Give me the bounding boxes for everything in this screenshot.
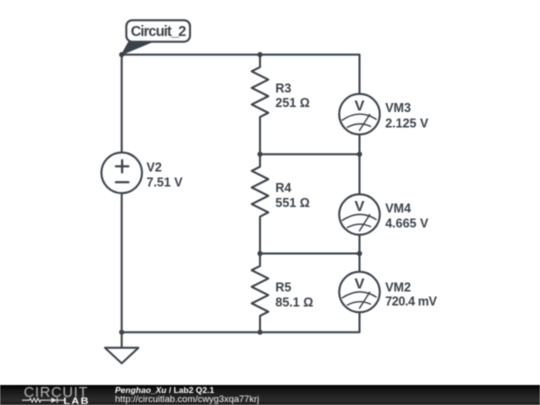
svg-text:R3: R3 bbox=[275, 81, 291, 95]
svg-text:251 Ω: 251 Ω bbox=[275, 96, 309, 110]
svg-text:VM3: VM3 bbox=[385, 101, 411, 115]
wire left rail (node A down through V2 to ground node) bbox=[121, 55, 123, 153]
svg-text:R4: R4 bbox=[275, 181, 291, 195]
annotation callout Circuit_2 box bbox=[126, 20, 190, 42]
voltmeter VM3 bbox=[339, 94, 380, 135]
wire VM4 top lead bbox=[359, 154, 361, 194]
wire row 3 (R4/R5 junction to VM4/VM2 junction) bbox=[260, 253, 360, 255]
svg-text:2.125 V: 2.125 V bbox=[385, 116, 429, 130]
footer author / title line bbox=[115, 386, 214, 395]
svg-text:551 Ω: 551 Ω bbox=[275, 196, 309, 210]
node dot R4/R5 junction bbox=[257, 251, 262, 256]
voltage source V2 bbox=[101, 153, 142, 194]
svg-text:VM4: VM4 bbox=[385, 201, 411, 215]
svg-text:720.4 mV: 720.4 mV bbox=[385, 295, 437, 309]
wire VM3 branch top bbox=[359, 55, 361, 94]
wire VM4 bottom lead bbox=[359, 235, 361, 254]
node A dot (top-left corner) bbox=[119, 52, 124, 57]
CircuitLab logo bbox=[0, 385, 110, 405]
annotation callout Circuit_2 pointer bbox=[122, 41, 153, 55]
svg-text:V: V bbox=[354, 98, 364, 115]
svg-text:V2: V2 bbox=[147, 161, 162, 175]
resistor R5 bbox=[252, 254, 269, 333]
node dot VM4/VM2 junction bbox=[357, 251, 362, 256]
wire top rail from node A to VM3 branch bbox=[122, 54, 360, 56]
node dot VM3/VM4 junction bbox=[357, 152, 362, 157]
wire V2 bottom to ground node bbox=[121, 193, 123, 332]
wire bottom rail from ground node to VM2 branch bbox=[122, 312, 360, 332]
node dot R3/R4 junction bbox=[257, 152, 262, 157]
wire VM3 bottom lead bbox=[359, 135, 361, 155]
footer url line bbox=[115, 395, 259, 404]
ground bbox=[105, 348, 138, 364]
wire ground stem bbox=[121, 332, 123, 348]
resistor R4 bbox=[252, 154, 269, 253]
voltmeter VM2 bbox=[339, 272, 380, 313]
resistor R3 bbox=[252, 55, 269, 154]
voltmeter VM4 bbox=[339, 194, 380, 235]
node dot R3 top bbox=[257, 52, 262, 57]
svg-text:V: V bbox=[354, 275, 364, 292]
footer bar bbox=[0, 385, 540, 405]
svg-text:R5: R5 bbox=[275, 281, 291, 295]
wire row 2 (R3/R4 junction to VM3/VM4 junction) bbox=[260, 153, 360, 155]
node dot ground junction bbox=[119, 330, 124, 335]
wire VM2 top lead bbox=[359, 254, 361, 272]
svg-text:7.51 V: 7.51 V bbox=[147, 176, 184, 190]
svg-text:LAB: LAB bbox=[63, 396, 90, 405]
svg-text:4.665 V: 4.665 V bbox=[385, 216, 429, 230]
svg-text:Circuit_2: Circuit_2 bbox=[131, 24, 187, 40]
svg-text:V: V bbox=[354, 198, 364, 215]
node dot R5 bottom bbox=[257, 330, 262, 335]
svg-text:85.1 Ω: 85.1 Ω bbox=[275, 295, 313, 309]
svg-text:VM2: VM2 bbox=[385, 280, 411, 294]
